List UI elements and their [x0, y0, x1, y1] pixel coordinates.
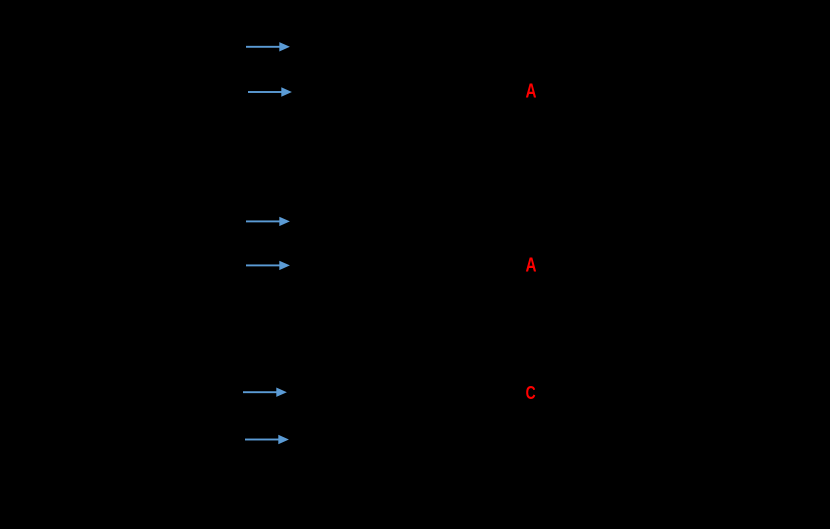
svg-text:A: A	[526, 255, 537, 277]
wire: input arrow 6 (gate 3 bottom input)	[245, 435, 289, 444]
wire: input arrow 5 (gate 3 top input)	[243, 388, 287, 397]
svg-text:A: A	[526, 81, 537, 103]
svg-text:C: C	[526, 383, 536, 403]
wire: input arrow 4 (gate 2 bottom input)	[246, 261, 290, 270]
wire: input arrow 1 (gate 1 top input)	[246, 42, 290, 51]
wire: input arrow 3 (gate 2 top input)	[246, 217, 290, 226]
wire: input arrow 2 (gate 1 bottom input)	[248, 87, 292, 96]
